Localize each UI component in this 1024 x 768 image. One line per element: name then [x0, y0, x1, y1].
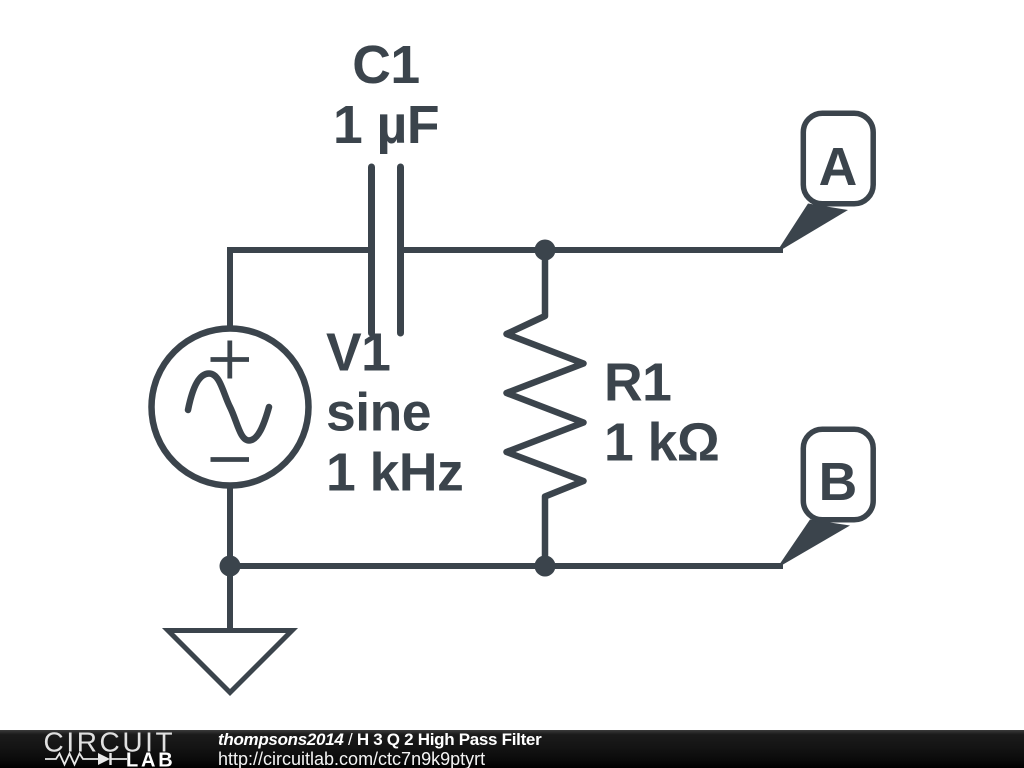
- svg-text:1 µF: 1 µF: [333, 96, 439, 155]
- svg-text:C1: C1: [352, 36, 419, 95]
- svg-text:A: A: [819, 138, 858, 197]
- wire: capacitor right plate to node: [403, 247, 545, 253]
- wire: node to terminal A: [545, 247, 783, 253]
- svg-text:LAB: LAB: [126, 750, 176, 768]
- svg-text:sine: sine: [326, 384, 431, 443]
- wire top-left: source top to capacitor left plate: [230, 250, 369, 328]
- ground: [168, 566, 292, 693]
- voltage source V1: [152, 329, 309, 486]
- wire: bottom node to terminal B: [545, 563, 783, 569]
- svg-text:1 kHz: 1 kHz: [326, 444, 463, 503]
- terminal B flag: [777, 429, 873, 568]
- terminal A flag: [776, 113, 873, 253]
- svg-text:R1: R1: [604, 354, 671, 413]
- footer line 2: [218, 749, 485, 768]
- resistor R1: [507, 250, 584, 566]
- node: top junction: [535, 240, 556, 261]
- wire: source bottom lead: [227, 487, 233, 566]
- svg-text:1 kΩ: 1 kΩ: [604, 414, 719, 473]
- svg-text:V1: V1: [326, 324, 390, 383]
- footer line 1: [218, 730, 541, 750]
- svg-text:B: B: [819, 453, 858, 512]
- node: bottom resistor junction: [535, 556, 556, 577]
- wire: bottom left (source bottom node to resistor node): [230, 563, 545, 569]
- capacitor C1: [372, 167, 401, 333]
- footer bar: [0, 730, 1024, 768]
- CircuitLab logo: [40, 730, 180, 768]
- node: bottom source junction: [220, 556, 241, 577]
